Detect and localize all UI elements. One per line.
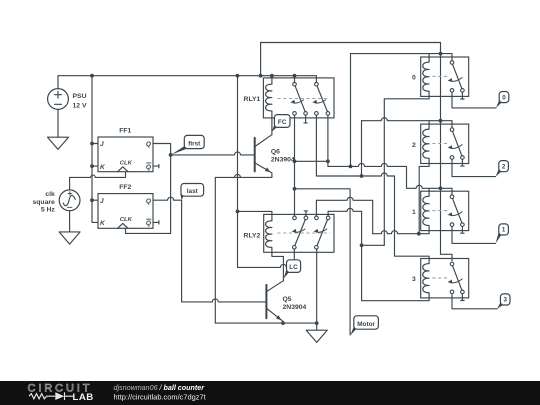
RLY2 dashed link: [277, 232, 330, 234]
svg-text:CLK: CLK: [120, 160, 133, 166]
flag Motor: [350, 326, 357, 335]
FF2 clock edge triangle: [118, 223, 128, 228]
relay 2 coil: [423, 124, 429, 163]
svg-text:0: 0: [502, 94, 506, 101]
relay 1 switch: [450, 195, 454, 199]
RLY1 pole 1: [293, 82, 297, 86]
svg-text:1: 1: [502, 227, 506, 234]
wire last node down to Q5 base with hop: [181, 200, 183, 302]
wire FF2 Q to node last: [153, 197, 182, 200]
wire emitter ground rail: [215, 322, 316, 324]
wire rail to relay0: [351, 54, 453, 61]
wire relay0 coil return: [384, 96, 429, 245]
relay 0 dashed link: [432, 75, 449, 77]
svg-text:RLY1: RLY1: [244, 96, 261, 103]
wire clk top: [69, 177, 71, 190]
svg-text:2N3904: 2N3904: [283, 304, 307, 311]
svg-text:LAB: LAB: [73, 392, 94, 403]
svg-text:FF1: FF1: [119, 128, 131, 135]
relay 2 switch: [450, 128, 454, 132]
svg-text:FC: FC: [278, 119, 287, 126]
wire RLY2 pole2 common to ground: [316, 249, 318, 323]
svg-text:1: 1: [412, 209, 416, 216]
wire PSU bottom: [57, 109, 59, 137]
wire RLY1 pole2 NC down to H2 bus: [315, 115, 317, 176]
wire bus drop left: [350, 54, 352, 167]
wire RLY1 pole2 NO down to H1 bus: [327, 115, 329, 166]
svg-text:Q5: Q5: [283, 296, 292, 303]
flip-flop FF2: [98, 194, 153, 229]
svg-text:PSU: PSU: [73, 93, 87, 100]
wire H1 to relay1 feed: [328, 163, 407, 188]
flag first: [171, 145, 188, 155]
wire coil return cross y245: [362, 244, 385, 246]
svg-text:FF2: FF2: [119, 184, 131, 191]
RLY1 dashed link: [277, 98, 327, 100]
flag output 3: [497, 302, 503, 309]
relay 1: [421, 191, 469, 230]
relay 3 NO stub: [461, 294, 464, 301]
wire RLY1 pole1 common down to RLY2: [294, 115, 296, 216]
RLY2 pole 2: [315, 216, 319, 220]
svg-text:Q: Q: [146, 220, 152, 227]
flag output 2: [496, 169, 502, 177]
wire top rail from RLY1 area: [261, 43, 441, 76]
wire PSU top to 12V rail: [57, 76, 59, 89]
svg-text:3: 3: [503, 297, 507, 304]
wire 12V feed to RLY2 coil and LC node: [237, 76, 239, 268]
svg-text:0: 0: [412, 75, 416, 82]
relay 3 coil: [423, 259, 429, 298]
relay 1 NO stub: [461, 226, 464, 233]
svg-text:Q: Q: [146, 141, 152, 148]
wire relay1 feed rail with hop: [407, 185, 453, 194]
svg-text:djsnowman06 / ball counter: djsnowman06 / ball counter: [114, 384, 206, 392]
relay 1 dashed link: [432, 210, 449, 212]
relay 3 dashed link: [432, 277, 449, 279]
flag output 0: [496, 100, 502, 108]
relay 2: [421, 124, 469, 163]
relay 0 NO stub: [461, 92, 464, 99]
ground below PSU: [48, 137, 69, 149]
wire J-K tie line from 12V rail: [92, 76, 98, 223]
svg-text:CLK: CLK: [120, 217, 133, 223]
svg-text:2N3904: 2N3904: [271, 156, 295, 163]
svg-text:J: J: [100, 141, 104, 148]
wire H4 to relay3 coil return: [328, 208, 429, 300]
wire H3 to relay1 coil return line: [315, 200, 317, 216]
relay 0 switch: [450, 61, 454, 65]
wire relay 1 output: [452, 226, 496, 243]
flag LC: [283, 270, 289, 279]
svg-text:5 Hz: 5 Hz: [41, 207, 56, 214]
relay RLY2: [264, 214, 334, 252]
wire relay2 coil return: [419, 164, 429, 234]
wire relay2 coil stub: [428, 121, 430, 124]
relay 3 switch: [450, 262, 454, 266]
svg-text:Motor: Motor: [357, 321, 375, 328]
FF1 clock edge triangle: [118, 167, 128, 172]
wire relay1 coil stub: [428, 188, 430, 191]
RLY1 coil: [266, 76, 272, 135]
relay RLY1: [263, 78, 334, 118]
wire FF1 Q to FF2 CLK (node first): [126, 144, 171, 234]
flip-flop FF1: [98, 137, 153, 172]
svg-text:3: 3: [412, 276, 416, 283]
wire first node to Q6 base with hop: [171, 152, 255, 155]
wire RLY2 pole2 NO up to H4: [327, 211, 329, 216]
svg-text:Q6: Q6: [271, 149, 280, 156]
wire clk to FF1 CLK with hop: [70, 172, 126, 178]
RLY2 coil: [266, 221, 284, 279]
wire Q6 emitter to ground line with hop: [215, 174, 272, 323]
relay 0: [421, 57, 469, 96]
wire motor line: [295, 189, 351, 335]
relay 3: [421, 259, 469, 298]
transistor Q5 2N3904: [265, 285, 267, 318]
svg-text:RLY2: RLY2: [244, 233, 261, 240]
svg-text:clk: clk: [45, 191, 55, 198]
ground below clk: [59, 232, 80, 244]
transistor Q6 2N3904: [254, 138, 256, 172]
FF1 Qbar stub: [153, 164, 159, 167]
svg-text:Q: Q: [146, 198, 152, 205]
svg-text:square: square: [33, 199, 56, 206]
wire relay 0 output: [452, 92, 496, 108]
svg-text:first: first: [188, 140, 201, 147]
svg-text:12 V: 12 V: [73, 102, 87, 109]
RLY2 pole 1: [293, 216, 297, 220]
ground below rail: [316, 323, 318, 330]
wire relay 2 output: [452, 159, 496, 176]
wire relay 3 output: [452, 294, 497, 309]
RLY1 pole1 NC stub: [304, 115, 307, 123]
RLY2 pole1 NC stub up: [304, 211, 307, 216]
RLY1 pole 2: [315, 82, 319, 86]
relay 2 dashed link: [432, 143, 449, 145]
svg-text:2: 2: [502, 163, 506, 170]
voltage source PSU: [48, 89, 69, 110]
svg-text:last: last: [187, 188, 199, 195]
bottom attribution bar: [0, 381, 540, 405]
voltage source clk square 5 Hz: [59, 190, 80, 211]
wire relay2 feed rail: [361, 121, 363, 176]
flag output 1: [496, 232, 503, 243]
wire common bus vertical: [441, 54, 453, 261]
relay 2 NO stub: [461, 159, 464, 166]
svg-text:Q: Q: [146, 164, 152, 171]
wire RLY2 pole1 common to LC node: [293, 249, 295, 267]
svg-text:2: 2: [412, 142, 416, 149]
relay 0 coil: [423, 57, 429, 96]
wire cross link y161: [295, 160, 328, 162]
wire H2 to relay3 coil feed: [316, 173, 429, 260]
relay 1 coil: [423, 191, 429, 230]
wire clk bottom: [69, 211, 71, 232]
flag last: [180, 194, 184, 200]
FF2 Qbar stub: [153, 221, 159, 224]
flag FC: [272, 125, 278, 132]
wire 12V rail: [58, 76, 316, 83]
svg-text:LC: LC: [289, 264, 298, 271]
svg-text:http://circuitlab.com/c7dgz7t: http://circuitlab.com/c7dgz7t: [114, 393, 207, 402]
wire relay0 coil stub: [428, 54, 430, 57]
svg-text:J: J: [100, 198, 104, 205]
